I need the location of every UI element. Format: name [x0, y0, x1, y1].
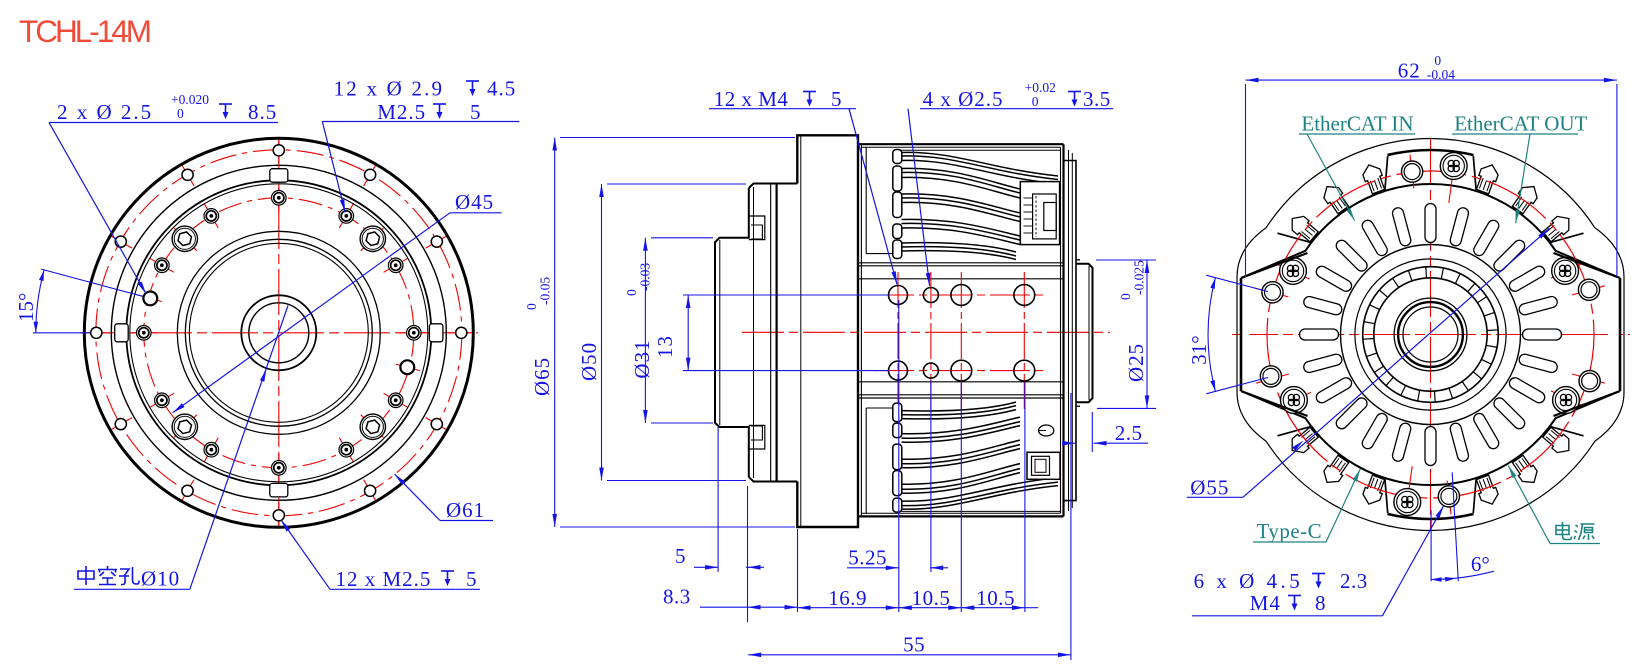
bay side walls: [1551, 233, 1584, 242]
raised ring outer: [126, 180, 431, 485]
svg-text:EtherCAT IN: EtherCAT IN: [1301, 112, 1413, 136]
centerline vertical: [1430, 139, 1432, 531]
svg-text:4.5: 4.5: [487, 77, 516, 101]
bolt circle D61: [96, 150, 462, 516]
outer thin outline (flange behind): [1237, 139, 1624, 531]
cable band bottom: [898, 510, 1061, 512]
svg-text:Ø65: Ø65: [530, 357, 554, 396]
dim D31: [644, 238, 646, 423]
hole circles bottom row: [889, 361, 908, 380]
4 hex socket screws: [360, 226, 385, 251]
svg-text:55: 55: [903, 633, 925, 657]
svg-text:M4: M4: [1250, 591, 1281, 615]
svg-text:10.5: 10.5: [912, 586, 951, 610]
corner rim cuts near flats: [1246, 226, 1305, 293]
svg-text:5.25: 5.25: [848, 545, 887, 569]
label power (Chinese): [1556, 522, 1572, 540]
center bore outer: [241, 295, 316, 370]
connector plugs: [1543, 216, 1569, 241]
red radial tick marks: [448, 332, 474, 334]
svg-text:Ø61: Ø61: [446, 498, 485, 522]
svg-text:12 x M4: 12 x M4: [714, 87, 789, 111]
motor body D62: [858, 143, 1064, 145]
svg-text:8.3: 8.3: [663, 585, 691, 609]
center boss circle: [1341, 245, 1521, 425]
svg-text:Ø45: Ø45: [455, 190, 494, 214]
bearing ball ring: [1363, 267, 1499, 403]
raised ring inner: [130, 184, 428, 482]
6 M4 counterbore holes: [1402, 161, 1423, 182]
svg-text:16.9: 16.9: [828, 586, 867, 610]
center bore D10: [249, 303, 309, 363]
svg-text:2 x Ø 2.5: 2 x Ø 2.5: [57, 100, 153, 124]
svg-text:Ø31: Ø31: [630, 339, 654, 378]
centerline horizontal: [1232, 334, 1630, 336]
svg-text:10.5: 10.5: [976, 586, 1015, 610]
svg-text:31°: 31°: [1187, 335, 1211, 364]
svg-text:Ø50: Ø50: [577, 342, 601, 381]
svg-text:0: 0: [177, 106, 184, 121]
Type-C connector: [0, 0, 1, 1]
svg-text:13: 13: [653, 335, 677, 358]
seal notch bottom: [749, 425, 765, 449]
svg-text:M2.5: M2.5: [377, 100, 426, 124]
svg-text:-0.025: -0.025: [1132, 260, 1147, 295]
dim D25: [1146, 260, 1148, 408]
6 phillips screws: [1440, 153, 1467, 180]
bolt circle D45: [144, 198, 414, 468]
svg-text:Ø10: Ø10: [141, 567, 180, 591]
svg-text:2.3: 2.3: [1340, 569, 1368, 593]
shaft boss D25: [1076, 264, 1093, 402]
svg-text:EtherCAT OUT: EtherCAT OUT: [1454, 112, 1587, 136]
bay openings (rim cut): [1467, 147, 1591, 249]
svg-text:-0.05: -0.05: [538, 277, 553, 305]
svg-text:2.5: 2.5: [1115, 421, 1143, 445]
svg-text:5: 5: [831, 87, 842, 111]
red fastener ticks: [1572, 286, 1605, 295]
thick silhouette rim: [1246, 150, 1615, 519]
svg-text:+0.020: +0.020: [171, 92, 209, 107]
vent slots: [1523, 329, 1562, 340]
svg-text:0: 0: [1434, 53, 1441, 68]
boss circle inner: [189, 243, 368, 422]
boss circle mid: [185, 239, 372, 426]
svg-text:Ø25: Ø25: [1124, 343, 1148, 382]
side flats: [1240, 278, 1243, 391]
front flange D65: [797, 135, 858, 527]
svg-text:+0.02: +0.02: [1025, 80, 1056, 95]
flat chord lens cuts: [1241, 277, 1258, 392]
boss circle outer: [177, 231, 380, 434]
cable band top: [898, 149, 1061, 151]
svg-text:Ø55: Ø55: [1190, 475, 1229, 499]
dim 13: [687, 295, 689, 371]
svg-text:12 x Ø 2.9: 12 x Ø 2.9: [334, 77, 445, 101]
end cap: [1068, 150, 1070, 511]
svg-text:8.5: 8.5: [248, 100, 277, 124]
svg-text:3.5: 3.5: [1083, 87, 1111, 111]
inner wall bottom: [1241, 391, 1620, 485]
2 pin holes D2.5: [143, 292, 157, 306]
leader to screw 60deg: [322, 122, 345, 213]
dim D65: [554, 138, 556, 528]
svg-text:TCHL-14M: TCHL-14M: [19, 13, 150, 49]
svg-text:12 x M2.5: 12 x M2.5: [336, 567, 432, 591]
svg-text:8: 8: [1315, 591, 1326, 615]
svg-text:4 x Ø2.5: 4 x Ø2.5: [923, 87, 1004, 111]
svg-text:5: 5: [470, 100, 481, 124]
inner wall top: [1241, 184, 1620, 278]
svg-text:Type-C: Type-C: [1257, 519, 1323, 543]
outer circle D65: [84, 138, 473, 527]
svg-text:-0.03: -0.03: [638, 263, 653, 291]
disc D50: [749, 184, 798, 189]
bore circles: [1394, 298, 1467, 371]
hole circles top row: [889, 286, 908, 305]
centerline: [742, 331, 1110, 333]
red hole centerlines: [874, 294, 1046, 296]
seal notch top: [749, 216, 765, 240]
12 inner screws D2.9: [407, 326, 422, 341]
12 outer M2.5 holes: [456, 327, 467, 338]
centerline horizontal: [80, 332, 478, 334]
flange step circle: [111, 165, 446, 500]
left view: front flange face: [80, 137, 478, 530]
dim D50: [601, 184, 603, 481]
gear section: [858, 262, 1064, 264]
output boss D31: [715, 188, 749, 477]
centerline vertical: [278, 137, 280, 530]
RJ45 connector: [1020, 182, 1059, 245]
svg-text:6 x Ø 4.5: 6 x Ø 4.5: [1194, 569, 1304, 593]
svg-text:15°: 15°: [14, 293, 38, 322]
svg-text:62: 62: [1398, 59, 1421, 83]
alignment tabs: [429, 324, 443, 342]
corner chamfers: [1241, 253, 1308, 278]
svg-text:5: 5: [675, 544, 686, 568]
bolt circle D55 red: [1267, 171, 1594, 498]
label hollow bore D10 (Chinese): [78, 566, 94, 585]
leader to pin hole 165deg: [49, 123, 146, 294]
svg-text:0: 0: [1032, 94, 1039, 109]
svg-text:5: 5: [466, 567, 477, 591]
